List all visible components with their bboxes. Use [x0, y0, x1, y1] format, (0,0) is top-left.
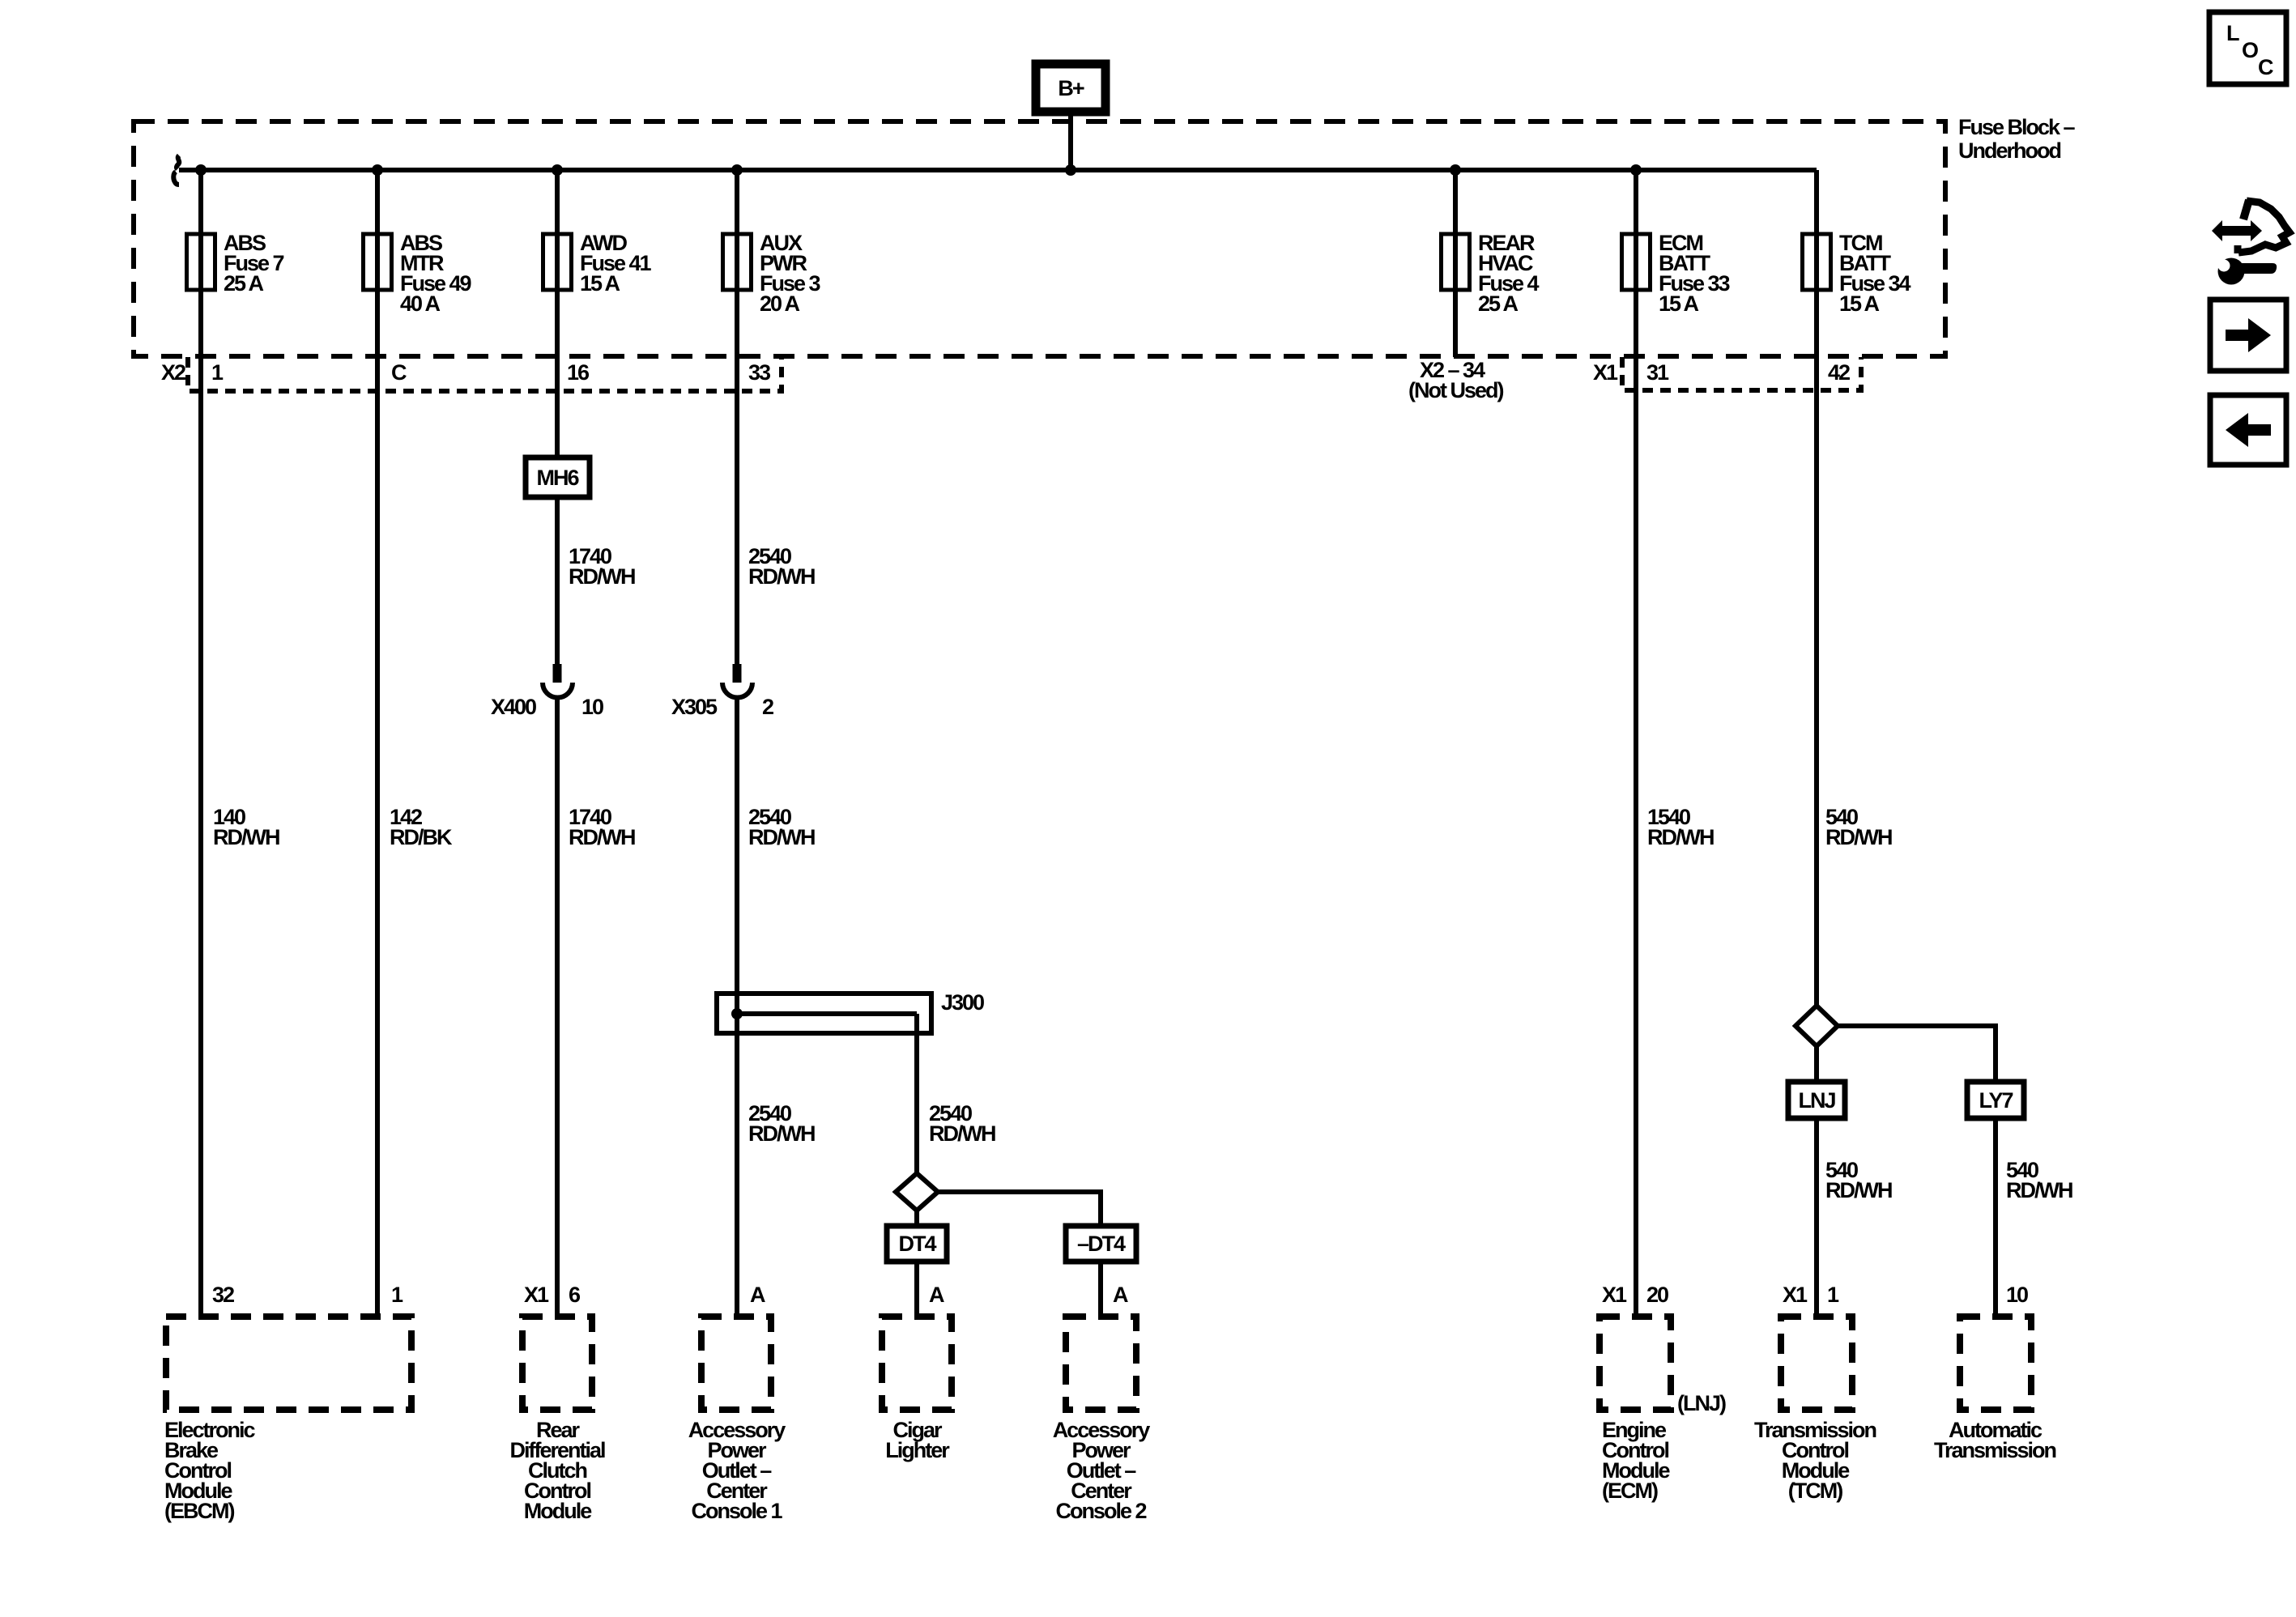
icon adjust-repair: [2212, 200, 2290, 285]
splice diamond DT4: [896, 1173, 938, 1211]
svg-text:40 A: 40 A: [400, 291, 441, 316]
svg-text:Fuse Block –: Fuse Block –: [1958, 115, 2076, 139]
wire label 1740 RD/WH upper: [569, 544, 635, 589]
svg-text:Module: Module: [524, 1499, 592, 1523]
icon LOC box: [2209, 12, 2286, 84]
option box LNJ: [1788, 1082, 1845, 1118]
caption EBCM: [164, 1418, 256, 1523]
wire main bus: [179, 168, 1817, 172]
caption cigar lighter: [885, 1418, 950, 1462]
wire label 2540 RD/WH below J300 left: [748, 1101, 815, 1146]
svg-text:X1: X1: [1783, 1283, 1808, 1307]
fuse 4 REAR HVAC: [1442, 234, 1470, 290]
module box ECM: [1600, 1317, 1671, 1410]
svg-text:2: 2: [762, 695, 773, 719]
label fuse 3: [760, 231, 821, 316]
caption outlet 1: [688, 1418, 786, 1523]
connector row X1 dashed box: [1622, 357, 1861, 390]
label fuse 49: [400, 231, 472, 316]
svg-text:RD/WH: RD/WH: [929, 1121, 995, 1146]
wire B+ stem: [1068, 112, 1073, 170]
svg-text:C: C: [2258, 55, 2273, 79]
svg-text:Console 2: Console 2: [1055, 1499, 1146, 1523]
svg-text:A: A: [1113, 1283, 1128, 1307]
svg-text:DT4: DT4: [898, 1232, 936, 1256]
svg-text:RD/WH: RD/WH: [1825, 825, 1892, 849]
svg-text:X1: X1: [1602, 1283, 1627, 1307]
svg-text:X1: X1: [524, 1283, 549, 1307]
svg-text:Underhood: Underhood: [1958, 138, 2060, 163]
svg-text:RD/WH: RD/WH: [569, 825, 635, 849]
svg-text:20: 20: [1646, 1283, 1668, 1307]
fuse 49 ABS MTR: [364, 234, 392, 290]
module box automatic transmission: [1960, 1317, 2031, 1410]
wire label 2540 RD/WH mid: [748, 805, 815, 849]
junction node ABS: [195, 164, 207, 176]
wire AUX upper: [735, 170, 739, 664]
svg-text:1: 1: [391, 1283, 403, 1307]
icon arrow back box: [2210, 395, 2286, 465]
svg-text:15 A: 15 A: [1839, 291, 1880, 316]
junction node B+: [1065, 164, 1076, 176]
wire label 540 RD/WH upper: [1825, 805, 1892, 849]
svg-text:RD/WH: RD/WH: [569, 564, 635, 589]
wire -DT4 to outlet 2: [1098, 1262, 1103, 1317]
svg-text:32: 32: [212, 1283, 234, 1307]
wire diamond to LNJ: [1814, 1046, 1819, 1082]
wire TCM diamond right branch: [1838, 1026, 1996, 1082]
svg-text:RD/WH: RD/WH: [1825, 1178, 1892, 1202]
wire LNJ to TCM module: [1814, 1118, 1819, 1317]
caption outlet 2: [1053, 1418, 1151, 1523]
fuse 7 ABS: [187, 234, 215, 290]
caption TCM: [1754, 1418, 1876, 1503]
option box MH6: [526, 457, 590, 497]
svg-text:(Not Used): (Not Used): [1408, 378, 1503, 402]
option box -DT4: [1066, 1226, 1136, 1262]
module box accessory power outlet center console 1: [701, 1317, 771, 1410]
module box cigar lighter: [882, 1317, 952, 1410]
wire AWD upper: [555, 170, 560, 457]
svg-text:16: 16: [567, 360, 590, 385]
splice diamond TCM: [1795, 1006, 1838, 1046]
label fuse 33: [1659, 231, 1731, 316]
svg-text:25 A: 25 A: [224, 271, 264, 296]
caption automatic transmission: [1934, 1418, 2056, 1462]
wire AUX lower: [735, 697, 739, 1317]
wire DT4 to cigar lighter: [914, 1262, 919, 1317]
svg-text:O: O: [2242, 38, 2258, 62]
svg-text:J300: J300: [941, 990, 984, 1015]
svg-text:Console 1: Console 1: [691, 1499, 782, 1523]
fuse block underhood dashed box: [134, 121, 1945, 356]
svg-text:RD/WH: RD/WH: [213, 825, 279, 849]
wire LY7 to automatic transmission: [1993, 1118, 1998, 1317]
svg-text:–DT4: –DT4: [1077, 1232, 1126, 1256]
wire AWD below MH6: [555, 497, 560, 664]
splice pack J300: [717, 990, 984, 1033]
wire ABS column: [198, 170, 203, 1317]
caption ECM: [1602, 1418, 1670, 1503]
svg-text:(TCM): (TCM): [1788, 1479, 1842, 1503]
wire ABS MTR column: [375, 170, 380, 1317]
svg-text:10: 10: [2006, 1283, 2028, 1307]
svg-text:33: 33: [748, 360, 771, 385]
svg-text:A: A: [750, 1283, 765, 1307]
icon arrow next box: [2210, 300, 2286, 371]
svg-text:RD/WH: RD/WH: [748, 564, 815, 589]
option box DT4: [887, 1226, 947, 1262]
fuse 41 AWD: [543, 234, 572, 290]
wire diamond right branch: [938, 1192, 1101, 1226]
fuse 34 TCM BATT: [1803, 234, 1831, 290]
svg-text:1: 1: [211, 360, 224, 385]
svg-text:RD/BK: RD/BK: [390, 825, 453, 849]
power symbol B+: [1036, 64, 1105, 112]
svg-text:RD/WH: RD/WH: [2006, 1178, 2072, 1202]
svg-text:RD/WH: RD/WH: [748, 1121, 815, 1146]
junction node REAR HVAC: [1450, 164, 1461, 176]
svg-text:15 A: 15 A: [1659, 291, 1699, 316]
svg-text:X2: X2: [161, 360, 185, 385]
svg-text:1: 1: [1827, 1283, 1839, 1307]
module box TCM: [1781, 1317, 1852, 1410]
svg-text:6: 6: [569, 1283, 581, 1307]
svg-text:10: 10: [581, 695, 603, 719]
wire TCM column upper: [1814, 170, 1819, 1006]
svg-text:C: C: [391, 360, 407, 385]
label fuse 41: [580, 231, 652, 296]
fuse 3 AUX PWR: [723, 234, 752, 290]
svg-text:X400: X400: [491, 695, 536, 719]
wire REAR HVAC: [1453, 170, 1458, 357]
svg-text:RD/WH: RD/WH: [1647, 825, 1714, 849]
svg-text:LNJ: LNJ: [1798, 1088, 1835, 1113]
wire label 2540 RD/WH below J300 right: [929, 1101, 995, 1146]
label fuse 34: [1839, 231, 1911, 316]
label fuse 7: [224, 231, 284, 296]
svg-text:X305: X305: [671, 695, 718, 719]
module box EBCM: [166, 1317, 411, 1410]
wire label 1540 RD/WH: [1647, 805, 1714, 849]
label Fuse Block Underhood: [1958, 115, 2076, 163]
module box accessory power outlet center console 2: [1066, 1317, 1136, 1410]
svg-text:(EBCM): (EBCM): [164, 1499, 234, 1523]
wire AWD lower: [555, 697, 560, 1317]
svg-text:B+: B+: [1058, 76, 1084, 100]
svg-text:(ECM): (ECM): [1602, 1479, 1658, 1503]
module box rear differential clutch control module: [522, 1317, 592, 1410]
svg-text:LY7: LY7: [1979, 1088, 2013, 1113]
svg-text:Transmission: Transmission: [1934, 1438, 2056, 1462]
connector row X2 dashed box: [188, 357, 782, 391]
svg-text:Lighter: Lighter: [885, 1438, 950, 1462]
svg-text:(LNJ): (LNJ): [1677, 1391, 1726, 1415]
junction node AWD: [552, 164, 563, 176]
junction node AUX PWR: [731, 164, 743, 176]
svg-text:25 A: 25 A: [1478, 291, 1519, 316]
wire label 540 RD/WH below LNJ: [1825, 1158, 1892, 1202]
junction node ABS MTR: [372, 164, 383, 176]
fuse 33 ECM BATT: [1622, 234, 1651, 290]
option box LY7: [1967, 1082, 2024, 1118]
wire label 2540 RD/WH upper: [748, 544, 815, 589]
svg-text:RD/WH: RD/WH: [748, 825, 815, 849]
wire diamond to DT4: [914, 1211, 919, 1226]
inline connector X305: [722, 664, 752, 698]
wire J300 branch down: [914, 1014, 919, 1173]
wire label 140 RD/WH: [213, 805, 279, 849]
svg-text:42: 42: [1828, 360, 1850, 385]
junction node ECM BATT: [1630, 164, 1642, 176]
svg-text:31: 31: [1646, 360, 1669, 385]
svg-text:MH6: MH6: [536, 466, 579, 490]
inline connector X400: [543, 664, 573, 698]
caption rear differential: [509, 1418, 605, 1523]
label X2-34 not used: [1408, 358, 1503, 402]
svg-text:20 A: 20 A: [760, 291, 800, 316]
svg-text:X1: X1: [1593, 360, 1618, 385]
wire ECM column: [1634, 170, 1638, 1317]
wire label 1740 RD/WH lower: [569, 805, 635, 849]
svg-text:15 A: 15 A: [580, 271, 620, 296]
label fuse 4: [1478, 231, 1540, 316]
svg-text:L: L: [2226, 21, 2239, 45]
wire label 540 RD/WH below LY7: [2006, 1158, 2072, 1202]
continuation squiggle: [173, 155, 179, 185]
wire label 142 RD/BK: [390, 805, 453, 849]
svg-text:A: A: [929, 1283, 944, 1307]
